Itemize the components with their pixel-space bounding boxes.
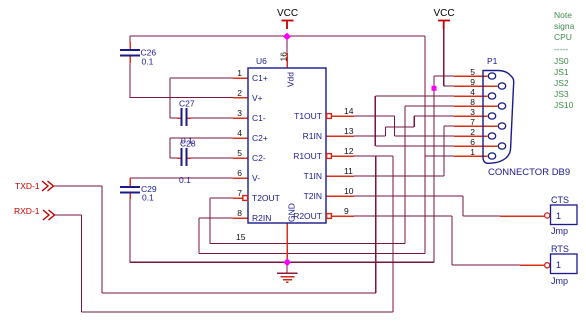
wire R1IN to DB9 pin3 y=116 (414, 115, 454, 117)
junction dot VCC rail (283, 33, 291, 41)
junction dot ground (283, 258, 291, 266)
DB9 pin 7 stub (454, 125, 498, 127)
svg-text:JS1: JS1 (554, 67, 569, 77)
svg-text:8: 8 (470, 97, 475, 107)
wire TXD riser x=102 (101, 186, 103, 293)
pin 7 stub T2OUT (233, 197, 243, 199)
op-amp U6 chip body (248, 68, 326, 223)
svg-text:V+: V+ (252, 93, 263, 103)
pin 9 stub R2OUT (332, 215, 355, 217)
svg-text:5: 5 (470, 67, 475, 77)
svg-text:CONNECTOR DB9: CONNECTOR DB9 (488, 167, 570, 178)
wire T1OUT row y=116 (354, 115, 395, 117)
svg-text:T2IN: T2IN (304, 191, 322, 201)
wire DB9 pin5 ground drop x=434 (433, 76, 435, 262)
svg-text:4: 4 (237, 128, 242, 138)
svg-text:T1IN: T1IN (304, 171, 322, 181)
wire T1OUT to DB9 pin2 y=136 (395, 135, 455, 137)
svg-text:T2OUT: T2OUT (252, 193, 280, 203)
svg-text:R1IN: R1IN (303, 131, 322, 141)
VCC symbol 2 stem (443, 21, 445, 30)
wire T2OUT to corner y=198 (210, 197, 233, 199)
wire R1IN link y=127 (386, 126, 415, 128)
wire T1IN row y=176 (354, 175, 444, 177)
wire C28 right to pin5 y=158 (191, 157, 233, 159)
pin 2 stub V+ (233, 97, 248, 99)
pin 9 bubble (327, 214, 332, 219)
svg-text:8: 8 (237, 208, 242, 218)
wire DB9 pin8 row y=106 (405, 105, 454, 107)
svg-text:R2IN: R2IN (252, 213, 271, 223)
wire R1IN rise2 x=414.2 (413, 116, 415, 127)
DB9 pin 9 stub (454, 85, 498, 87)
DB9 pin 8 stub (454, 105, 498, 107)
svg-text:-----: ----- (554, 44, 568, 54)
wire R1IN row y=136 (354, 135, 386, 137)
CTS jumper box (551, 205, 578, 225)
pin 12 stub R1OUT (332, 155, 355, 157)
wire C28 left lead y=158 (170, 157, 177, 159)
capacitor C28 plates (182, 148, 187, 166)
svg-text:C2-: C2- (252, 153, 266, 163)
DB9 pin 5 circle (488, 73, 495, 79)
svg-text:P1: P1 (487, 56, 498, 66)
wire DB9 pin5 row y=76 (434, 75, 454, 77)
svg-text:T1OUT: T1OUT (294, 111, 322, 121)
wire C29 bottom drop x=130 (129, 199, 131, 262)
RTS jumper pin circle (545, 263, 550, 268)
DB9 pin 4 circle (488, 93, 495, 99)
wire TXD bottom rail y=293 (102, 292, 376, 294)
pin 13 stub R1IN (326, 135, 354, 137)
svg-text:14: 14 (344, 106, 354, 116)
svg-text:16: 16 (279, 52, 289, 62)
svg-text:R2OUT: R2OUT (293, 211, 322, 221)
pin 16 stub Vdd (286, 53, 288, 68)
svg-text:C2+: C2+ (252, 133, 268, 143)
wire DB9 pin9 row y=86 (444, 85, 454, 87)
wire RXD riser x=81.5 (81, 215, 83, 312)
wire VCC top rail y=36 (130, 35, 425, 37)
wire TXD to R1OUT row riser x=375.8 (375, 156, 377, 293)
junction dot DB9 pin5/pin9 net (432, 86, 437, 91)
svg-text:11: 11 (344, 166, 353, 176)
wire DB9 pin1 row y=156 (425, 155, 454, 157)
ground symbol (277, 273, 298, 282)
wire ground rail y=262.3 (130, 261, 434, 263)
wire DB9 pin7 drop x=444 (443, 126, 445, 176)
svg-text:1: 1 (556, 211, 561, 221)
wire R1OUT row y=156 (354, 155, 393, 157)
DB9 pin 3 circle (488, 113, 495, 119)
wire RXD port lead y=215 (54, 214, 82, 216)
svg-text:6: 6 (470, 137, 475, 147)
pin 4 stub C2+ (233, 137, 248, 139)
DB9 pin 8 circle (498, 103, 505, 109)
wire R1OUT drop x=393 (392, 156, 394, 312)
wire R2OUT row y=216 (354, 215, 452, 217)
RTS jumper pin stub (520, 264, 545, 266)
pin 6 stub V- (233, 177, 248, 179)
DB9 pin 2 stub (454, 135, 488, 137)
wire V- pin6 y=178 (130, 177, 233, 179)
svg-text:2: 2 (470, 127, 475, 137)
svg-text:V-: V- (252, 173, 260, 183)
svg-text:Note: Note (554, 10, 572, 20)
svg-text:Vdd: Vdd (286, 72, 296, 87)
C28 left lead (177, 157, 181, 159)
DB9 pin 9 circle (498, 83, 505, 89)
wire RTS row y=264.5 (452, 264, 520, 266)
svg-text:Jmp: Jmp (551, 276, 568, 286)
wire C26 bottom to V+ y=97.5 (130, 63, 233, 98)
pin 14 bubble (327, 114, 332, 119)
wire DB9 pin4 row y=96 (375, 95, 454, 97)
pin 1 stub C1+ (233, 77, 248, 79)
pin 11 stub T1IN (326, 175, 354, 177)
svg-text:1: 1 (556, 260, 561, 270)
svg-text:1: 1 (237, 68, 242, 78)
svg-text:7: 7 (237, 188, 242, 198)
wire R1IN rise x=385.5 (385, 127, 387, 136)
C29 bottom lead (129, 193, 131, 199)
C26 bottom lead (129, 56, 131, 63)
DB9 pin 7 circle (498, 123, 505, 129)
wire C27 right to pin3 y=118 (191, 117, 233, 119)
pin 12 bubble (327, 154, 332, 159)
wire pin4 to C28 vertical x=170 (169, 138, 171, 158)
RTS jumper box (551, 254, 578, 274)
svg-text:9: 9 (470, 77, 475, 87)
svg-text:15: 15 (236, 232, 246, 242)
svg-text:GND: GND (287, 203, 297, 222)
VCC symbol 1 stem (286, 21, 288, 30)
capacitor C29 plates (120, 187, 140, 193)
svg-text:3: 3 (237, 108, 242, 118)
svg-text:5: 5 (237, 148, 242, 158)
svg-text:RTS: RTS (551, 244, 569, 254)
wire R2IN route y=253.5 (199, 253, 425, 255)
svg-text:12: 12 (344, 146, 354, 156)
VCC symbol 1 bar (282, 20, 294, 22)
svg-text:2: 2 (237, 88, 242, 98)
pin 10 stub T2IN (326, 195, 354, 197)
wire T2IN row y=196 (354, 195, 463, 197)
svg-text:C1+: C1+ (252, 73, 268, 83)
C28 right lead (187, 157, 191, 159)
svg-text:R1OUT: R1OUT (293, 151, 322, 161)
svg-text:0.1: 0.1 (142, 57, 154, 67)
DB9 pin 6 circle (498, 143, 505, 149)
wire pin16 net segment x=287 (286, 36, 288, 53)
svg-text:VCC: VCC (277, 8, 298, 19)
wire pin1 to C27 vertical x=170 (169, 78, 171, 118)
wire C26 top connection x=130 (129, 36, 131, 43)
pin 14 stub T1OUT (332, 115, 355, 117)
wire R2IN to chip y=218 (199, 217, 233, 219)
wire DB9 pin8 drop x=405 (404, 106, 406, 244)
svg-text:RXD-1: RXD-1 (14, 206, 40, 216)
svg-text:9: 9 (344, 206, 349, 216)
svg-text:JS3: JS3 (554, 89, 569, 99)
svg-text:Jmp: Jmp (551, 226, 568, 236)
wire TXD port lead y=186 (54, 185, 102, 187)
svg-text:4: 4 (470, 87, 475, 97)
wire T2OUT drop x=210 (209, 198, 211, 244)
wire DB9 pin6 row y=146 (375, 145, 454, 147)
CTS jumper pin stub (500, 215, 545, 217)
svg-text:VCC: VCC (434, 8, 455, 19)
C26 top lead (129, 42, 131, 50)
wire R2IN vertical x=199 (198, 218, 200, 254)
svg-text:JS0: JS0 (554, 56, 569, 66)
wire VCC2 drop x=443.7 (443, 28, 445, 86)
svg-text:0.1: 0.1 (179, 175, 191, 185)
svg-text:CTS: CTS (551, 195, 569, 205)
wire T2IN to CTS drop x=463 (462, 196, 464, 216)
wire T2OUT route y=243.5 (210, 243, 405, 245)
wire RXD bottom rail y=312 (82, 311, 394, 313)
svg-text:0.1: 0.1 (142, 193, 154, 203)
svg-text:10: 10 (344, 186, 354, 196)
CTS jumper pin circle (545, 213, 550, 218)
wire VCC rail drop x=425 to R2IN route (424, 36, 426, 254)
capacitor C26 plates (120, 50, 140, 56)
pin 15 stub GND (286, 223, 288, 262)
svg-text:CPU: CPU (554, 32, 572, 42)
wire T1OUT jog x=394.5 (394, 116, 396, 136)
svg-text:C27: C27 (179, 99, 195, 109)
port TXD-1 chevron (42, 181, 54, 191)
C27 right lead (187, 117, 191, 119)
DB9 pin 6 stub (454, 145, 498, 147)
wire ground stem below junction x=287 (286, 262, 288, 273)
svg-text:7: 7 (470, 117, 475, 127)
svg-text:TXD-1: TXD-1 (15, 181, 40, 191)
DB9 pin 5 stub (454, 75, 488, 77)
svg-text:signa: signa (554, 21, 575, 31)
svg-text:6: 6 (237, 168, 242, 178)
connector P1 DB9 shell (483, 71, 514, 164)
VCC symbol 2 bar (438, 20, 450, 22)
svg-text:JS10: JS10 (554, 100, 574, 110)
svg-text:3: 3 (470, 107, 475, 117)
wire R2OUT to RTS drop x=452 (451, 216, 453, 265)
port RXD-1 chevron (43, 210, 55, 220)
DB9 pin 1 stub (454, 155, 488, 157)
wire DB9 pin7 row y=126 (444, 125, 454, 127)
svg-text:13: 13 (344, 126, 354, 136)
svg-text:U6: U6 (256, 56, 267, 66)
svg-text:C1-: C1- (252, 113, 266, 123)
DB9 pin 2 circle (488, 133, 495, 139)
DB9 pin 3 stub (454, 115, 488, 117)
pin 5 stub C2- (233, 157, 248, 159)
wire CTS row y=216 (463, 215, 500, 217)
wire C27 left lead y=118 (170, 117, 177, 119)
pin 7 bubble (243, 196, 248, 201)
C27 left lead (177, 117, 181, 119)
svg-text:C28: C28 (180, 139, 196, 149)
capacitor C27 plates (182, 108, 187, 126)
wire DB9 pin4 drop x=375.3 (374, 96, 376, 146)
svg-text:JS2: JS2 (554, 78, 569, 88)
DB9 pin 1 circle (488, 153, 495, 159)
pin 8 stub R2IN (233, 217, 248, 219)
C29 top lead (129, 178, 131, 187)
DB9 pin 4 stub (454, 95, 488, 97)
pin 3 stub C1- (233, 117, 248, 119)
wire C1+ pin1 y=78 (170, 77, 233, 79)
svg-text:1: 1 (470, 147, 475, 157)
wire C2+ pin4 y=138 (170, 137, 233, 139)
